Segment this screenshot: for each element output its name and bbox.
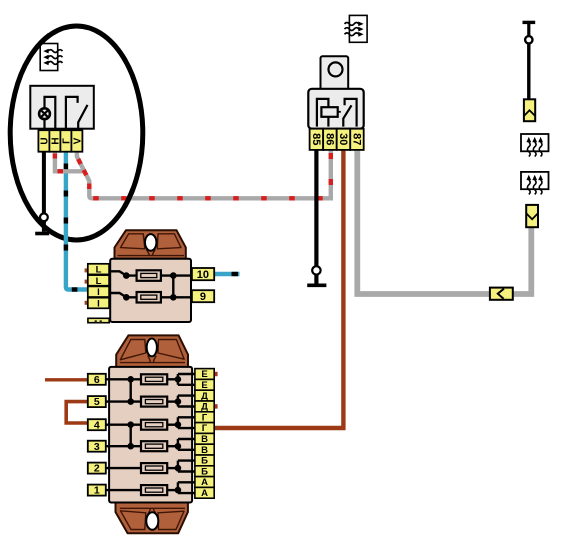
connector circle top right [525, 36, 532, 43]
svg-text:Г: Г [202, 423, 208, 434]
relay K1 body [308, 89, 363, 129]
relay K1 mounting tab [321, 56, 349, 90]
upper fuse box left pin I1 [88, 286, 109, 298]
heater element icon 2 [521, 172, 549, 195]
svg-text:3: 3 [94, 441, 100, 453]
lower fuse box body [109, 367, 192, 503]
upper fuse box body [110, 259, 191, 322]
ellipse arc overlay over gray wire crossing [124, 189, 132, 207]
upper fuse box pin 10 [192, 268, 214, 281]
lower fuse box left pin 2 [88, 463, 106, 475]
wire: black wire down to connector X1 [527, 44, 530, 100]
ground G2 [307, 283, 326, 287]
upper fuse F2 wiring [109, 293, 194, 301]
svg-text:1: 1 [94, 485, 100, 497]
lower fuse box left pin 4 [88, 419, 106, 431]
lower fuse box right pin V1 [195, 433, 214, 445]
switch contact blade [78, 105, 87, 129]
lower fuse F1 wiring row6 [106, 482, 195, 493]
bus between F1 and F2 [172, 276, 174, 298]
svg-text:L: L [96, 265, 102, 276]
wire: brown U loop between lower fuse pins 5 and 4 [66, 402, 88, 423]
svg-text:86: 86 [324, 133, 336, 145]
ground G1 [35, 232, 49, 236]
svg-text:Е: Е [201, 369, 207, 380]
upper fuse F1 [137, 270, 161, 281]
svg-text:В: В [201, 445, 208, 456]
svg-text:6: 6 [94, 374, 100, 386]
switch pin U [38, 130, 50, 152]
lower fuse F4 [141, 420, 167, 430]
lower fuse F3 [141, 441, 167, 451]
upper fuse box pin 9 [192, 290, 214, 303]
svg-text:9: 9 [200, 291, 206, 303]
lower fuse box right pin B1 [195, 455, 214, 467]
relay coil [317, 99, 341, 127]
lower fuse F5 [141, 397, 167, 407]
switch pin N [49, 130, 61, 152]
svg-text:В: В [201, 434, 208, 445]
heated rear window icon above relay [345, 15, 368, 42]
wire: gray wire from relay pin 87 to rear window heater [357, 150, 531, 294]
heated rear window icon above switch [40, 44, 62, 71]
relay pin 86 [323, 129, 337, 150]
svg-text:2: 2 [94, 463, 100, 475]
svg-text:10: 10 [197, 269, 209, 281]
lower fuse F6 wiring row1 [106, 374, 195, 385]
wire: blue stub from upper fuse pin 10 [214, 272, 239, 276]
switch pin V [71, 130, 83, 152]
relay pin 85 [310, 129, 324, 150]
relay fixed contact [345, 99, 357, 127]
ellipse arc overlay over heater icon corner [33, 35, 50, 53]
lower fuse F1b [141, 485, 167, 495]
lower fuse box right pin A2 [195, 487, 214, 499]
upper fuse F1 wiring [109, 271, 194, 279]
upper fuse box left pin L1 [88, 264, 109, 276]
switch internal wiring [45, 97, 78, 129]
heater element icon 1 [521, 134, 549, 157]
connector X3 (left arrow on horizontal wire) [490, 288, 513, 300]
lower fuse F5 wiring row2 [106, 396, 195, 407]
relay pin 87 [350, 129, 363, 150]
upper fuse F2 [137, 292, 161, 303]
connector X1 (up arrow) [524, 99, 535, 121]
upper fuse box left pin L2 [88, 275, 109, 287]
svg-text:I: I [97, 299, 100, 310]
svg-text:4: 4 [94, 419, 100, 431]
antenna/terminal bar top right [523, 22, 536, 36]
connector circle on ground wire [40, 213, 48, 221]
lower fuse box right pin D2 [195, 401, 214, 413]
wire: dark brown wire from relay pin 30 to lower fuse box pin G [215, 150, 344, 428]
bus rows1-2 [129, 379, 131, 401]
svg-text:Д: Д [201, 402, 208, 413]
svg-text:А: А [201, 477, 208, 488]
lower fuse F4 wiring row3 [106, 417, 195, 428]
switch S1 body [30, 86, 94, 129]
highlight ellipse around switch [10, 26, 143, 240]
connector X2 (down arrow) [526, 205, 538, 227]
connector circle on relay ground wire [312, 266, 320, 274]
svg-text:Д: Д [201, 391, 208, 402]
lower fuse box right pin D1 [195, 390, 214, 402]
svg-text:30: 30 [337, 133, 349, 145]
wire stubs at upper fuse box left pins [85, 268, 88, 304]
switch pin L [60, 130, 72, 152]
lower fuse box right pin E1 [195, 369, 214, 381]
lower fuse box top cap [116, 335, 188, 367]
lower fuse F6 [141, 374, 167, 384]
svg-text:I: I [97, 287, 100, 298]
svg-text:Б: Б [201, 456, 208, 467]
lower fuse box left pin 3 [88, 441, 106, 453]
relay contact blade [343, 105, 351, 126]
bus rows3-4 [129, 425, 131, 447]
svg-text:L: L [96, 276, 102, 287]
svg-text:А: А [201, 488, 208, 499]
lower fuse box right pin G2 [195, 423, 214, 435]
upper fuse box cap [115, 230, 186, 258]
lower fuse box right pin B2 [195, 466, 214, 478]
lower fuse box bottom cap [116, 502, 188, 533]
svg-text:V: V [72, 137, 83, 144]
svg-text:Б: Б [201, 466, 208, 477]
lower fuse F3 wiring row4 [106, 439, 195, 450]
wire: black ground wire from relay pin 85 [314, 150, 318, 284]
wire stubs at lower fuse box right pins E and D [214, 372, 217, 409]
lower fuse box right pin A1 [195, 477, 214, 489]
lower fuse box right pin V2 [195, 444, 214, 456]
wire: brown stub at lower fuse pin 6 [45, 378, 88, 381]
lower fuse box left pin 5 [88, 396, 106, 408]
lower fuse F2 wiring row5 [106, 461, 195, 472]
wire: gray/red wire from switch pin N joining pin V branch [55, 150, 85, 171]
svg-text:Г: Г [202, 412, 208, 423]
lower fuse box right pin E2 [195, 379, 214, 391]
indicator lamp in switch [39, 108, 50, 119]
lower fuse F2b [141, 463, 167, 473]
wire: black ground wire from switch pin U [42, 150, 46, 232]
svg-text:87: 87 [351, 133, 363, 145]
wire: gray/red wire from switch pin V to relay pin 86 [77, 150, 331, 198]
relay pin 30 [337, 129, 351, 150]
wire: blue wire from switch pin L to upper fuse box [66, 150, 88, 290]
svg-text:85: 85 [310, 133, 322, 145]
lower fuse box left pin 6 [88, 374, 106, 386]
lower fuse box left pin 1 [88, 485, 106, 497]
upper fuse box partial 5th pin [88, 318, 109, 322]
svg-text:Е: Е [201, 380, 207, 391]
upper fuse box left pin I2 [88, 298, 109, 310]
lower fuse box right pin G1 [195, 412, 214, 424]
svg-text:5: 5 [94, 396, 100, 408]
